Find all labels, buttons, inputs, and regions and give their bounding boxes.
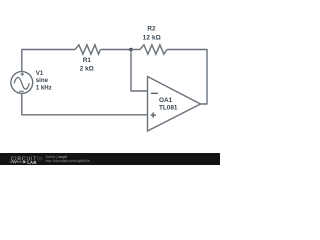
svg-text:2 kΩ: 2 kΩ [80, 66, 94, 73]
wire V1 bottom rail to non-inverting input [22, 93, 148, 115]
resistor R1 [75, 45, 100, 73]
watermark bar [0, 153, 220, 165]
svg-text:LAB: LAB [27, 160, 37, 165]
svg-text:R2: R2 [147, 26, 156, 33]
wire R2 to output (right feedback) [167, 50, 207, 105]
svg-text:V1: V1 [36, 70, 44, 77]
svg-text:1 kHz: 1 kHz [36, 84, 52, 91]
wire node A down to inverting input [131, 50, 148, 92]
svg-text:TL081: TL081 [159, 105, 178, 112]
svg-text:R1: R1 [83, 57, 92, 64]
wire node A to R2 [131, 49, 140, 51]
wire R1 to node A [100, 49, 131, 51]
svg-text:OA1: OA1 [159, 97, 173, 104]
svg-text:http://circuitlab.com/c/qb8e3e: http://circuitlab.com/c/qb8e3e [46, 159, 90, 163]
op-amp OA1 [148, 77, 201, 132]
resistor R2 [140, 26, 167, 55]
wire top rail left segment (V1 top to R1) [22, 50, 75, 73]
svg-text:sine: sine [36, 77, 49, 84]
svg-text:12 kΩ: 12 kΩ [143, 35, 161, 42]
CircuitLab logo wordmark [10, 156, 43, 165]
node A junction dot [129, 48, 133, 52]
voltage source V1 [11, 70, 52, 93]
